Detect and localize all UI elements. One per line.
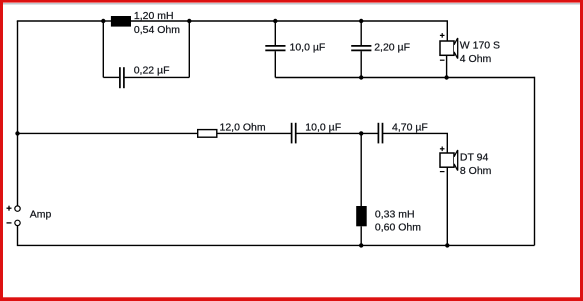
svg-text:Amp: Amp [30, 208, 52, 220]
capacitor C2 10,0 µF plates [265, 46, 285, 51]
resistor R1 12,0 Ohm [198, 130, 217, 138]
wire: amp − terminal down to bottom rail [18, 225, 535, 245]
capacitor C3 2,20 µF plates [351, 46, 371, 51]
svg-text:4,70 µF: 4,70 µF [392, 121, 428, 133]
inductor L1 1,20 mH / 0,54 Ohm [111, 16, 131, 27]
svg-text:10,0 µF: 10,0 µF [290, 41, 326, 53]
svg-text:8 Ohm: 8 Ohm [460, 165, 492, 177]
wire: woofer negative lead to rail [446, 55, 448, 77]
wire: L1 right node to C2 top node [189, 20, 275, 22]
wire: top rail, corner to L1 left node [17, 20, 104, 22]
speaker LS1 W 170 S 4 Ohm [440, 33, 458, 60]
wire: C3 bottom lead [360, 51, 362, 77]
junction: L1 left node [101, 19, 105, 23]
inductor L2 0,33 mH / 0,60 Ohm [356, 206, 367, 226]
wire: L2 branch lower lead [360, 226, 362, 245]
junction: mid-rail tap on left vertical [15, 131, 19, 135]
wire: inductor to L1 right node [131, 20, 189, 22]
svg-text:0,33 mH: 0,33 mH [375, 209, 415, 221]
junction: tweeter bottom node [445, 243, 449, 247]
capacitor C4 10,0 µF series plates [292, 123, 296, 144]
amp terminal + [7, 206, 21, 212]
wire: C2 top node to C3 top node [275, 20, 361, 22]
junction: C3 top node [359, 19, 363, 23]
wire: mid rail from left tap to R1 [18, 132, 198, 134]
wire: woofer return rail [275, 77, 534, 79]
wire: right return vertical [534, 77, 536, 246]
junction: C2 top node [273, 19, 277, 23]
wire: L2 branch upper lead [360, 133, 362, 206]
wire: C1 branch bottom right [125, 76, 190, 78]
svg-text:1,20 mH: 1,20 mH [134, 10, 174, 22]
svg-text:12,0 Ohm: 12,0 Ohm [220, 121, 266, 133]
wire: L2 top node to C5 [361, 132, 378, 134]
wire: C1 branch right riser [188, 21, 190, 77]
junction: woofer bottom node on return rail [444, 75, 448, 79]
wire: tweeter negative lead down to bottom rail [446, 167, 448, 245]
wire: C1 branch left drop [102, 21, 104, 77]
wire: C4 to L2 top node [296, 132, 361, 134]
amp terminal − [7, 220, 21, 225]
svg-text:W 170 S: W 170 S [460, 39, 500, 51]
wire: C5 to tweeter corner [382, 133, 447, 153]
svg-text:0,22 µF: 0,22 µF [134, 65, 170, 77]
svg-text:DT 94: DT 94 [460, 152, 489, 164]
capacitor C1 0,22 µF plates [120, 67, 124, 88]
capacitor C5 4,70 µF series plates [378, 123, 382, 144]
speaker LS2 DT 94 8 Ohm [440, 147, 458, 172]
wire: C1 branch bottom left [103, 76, 119, 78]
wire: C2 top lead [274, 21, 276, 45]
junction: C3 bottom node on return rail [359, 75, 363, 79]
svg-text:2,20 µF: 2,20 µF [374, 41, 410, 53]
junction: L2 bottom node [359, 243, 363, 247]
junction: L2 top node [359, 131, 363, 135]
svg-text:0,60 Ohm: 0,60 Ohm [375, 222, 421, 234]
svg-text:4 Ohm: 4 Ohm [460, 53, 492, 65]
wire: C3 top lead [360, 21, 362, 45]
wire: C2 bottom lead [274, 51, 276, 77]
wire: left vertical from amp + terminal up to top-left corner [17, 21, 19, 206]
wire: C3 top node to woofer corner [361, 21, 447, 41]
svg-text:10,0 µF: 10,0 µF [305, 121, 341, 133]
svg-text:0,54 Ohm: 0,54 Ohm [134, 24, 180, 36]
junction: L1 right node [187, 19, 191, 23]
wire: L1 left node to inductor [103, 20, 111, 22]
wire: R1 to C4 [217, 132, 291, 134]
